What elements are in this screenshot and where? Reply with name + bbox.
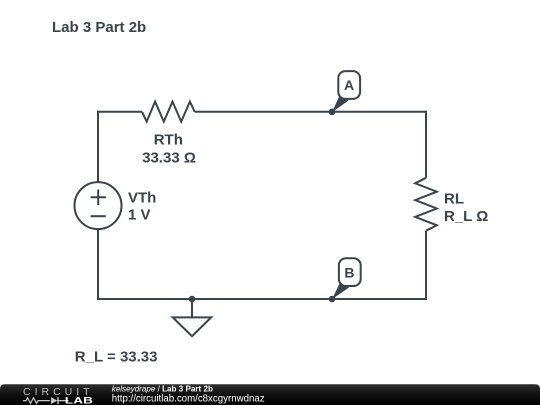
node A flag pointer [332,94,349,113]
wire: right vertical below RL [425,231,427,300]
resistor RTh body (zigzag) [142,102,195,122]
svg-text:R_L Ω: R_L Ω [444,208,488,225]
footer black bar [0,384,540,405]
svg-text:33.33 Ω: 33.33 Ω [142,149,196,166]
wire: left vertical top segment [97,111,99,182]
node A flag box [338,71,360,99]
wire: left vertical bottom segment [97,229,99,300]
wire: top horizontal right of RTh [195,111,427,113]
resistor RL body (zigzag) [415,178,437,231]
wire: right vertical above RL [425,111,427,178]
node B junction dot [329,296,336,303]
CircuitLab logo resistor-diode line [23,398,69,404]
node B flag box [339,258,361,286]
node B flag pointer [332,281,349,300]
wire: top horizontal left of RTh [97,111,142,113]
ground triangle symbol [173,317,212,336]
svg-text:R_L = 33.33: R_L = 33.33 [75,348,158,365]
svg-text:1 V: 1 V [128,207,151,224]
node A junction dot [329,109,336,116]
svg-text:VTh: VTh [128,190,156,207]
svg-text:LAB: LAB [65,396,93,405]
CircuitLab logo diode symbol [51,397,58,404]
ground junction dot [189,296,196,303]
wire: bottom horizontal [97,298,427,300]
svg-text:RL: RL [444,191,464,208]
voltage source VTh circle [75,182,122,229]
ground stem wire [191,299,193,317]
svg-text:RTh: RTh [154,132,183,149]
svg-text:kelseydrape / Lab 3 Part 2b: kelseydrape / Lab 3 Part 2b [112,384,213,393]
voltage source plus sign [91,190,106,206]
svg-text:B: B [344,264,354,280]
svg-text:http://circuitlab.com/c8xcgyrn: http://circuitlab.com/c8xcgyrnwdnaz [112,394,265,405]
svg-text:A: A [344,77,354,93]
voltage source minus sign [91,215,106,217]
svg-text:Lab 3 Part 2b: Lab 3 Part 2b [52,19,146,36]
